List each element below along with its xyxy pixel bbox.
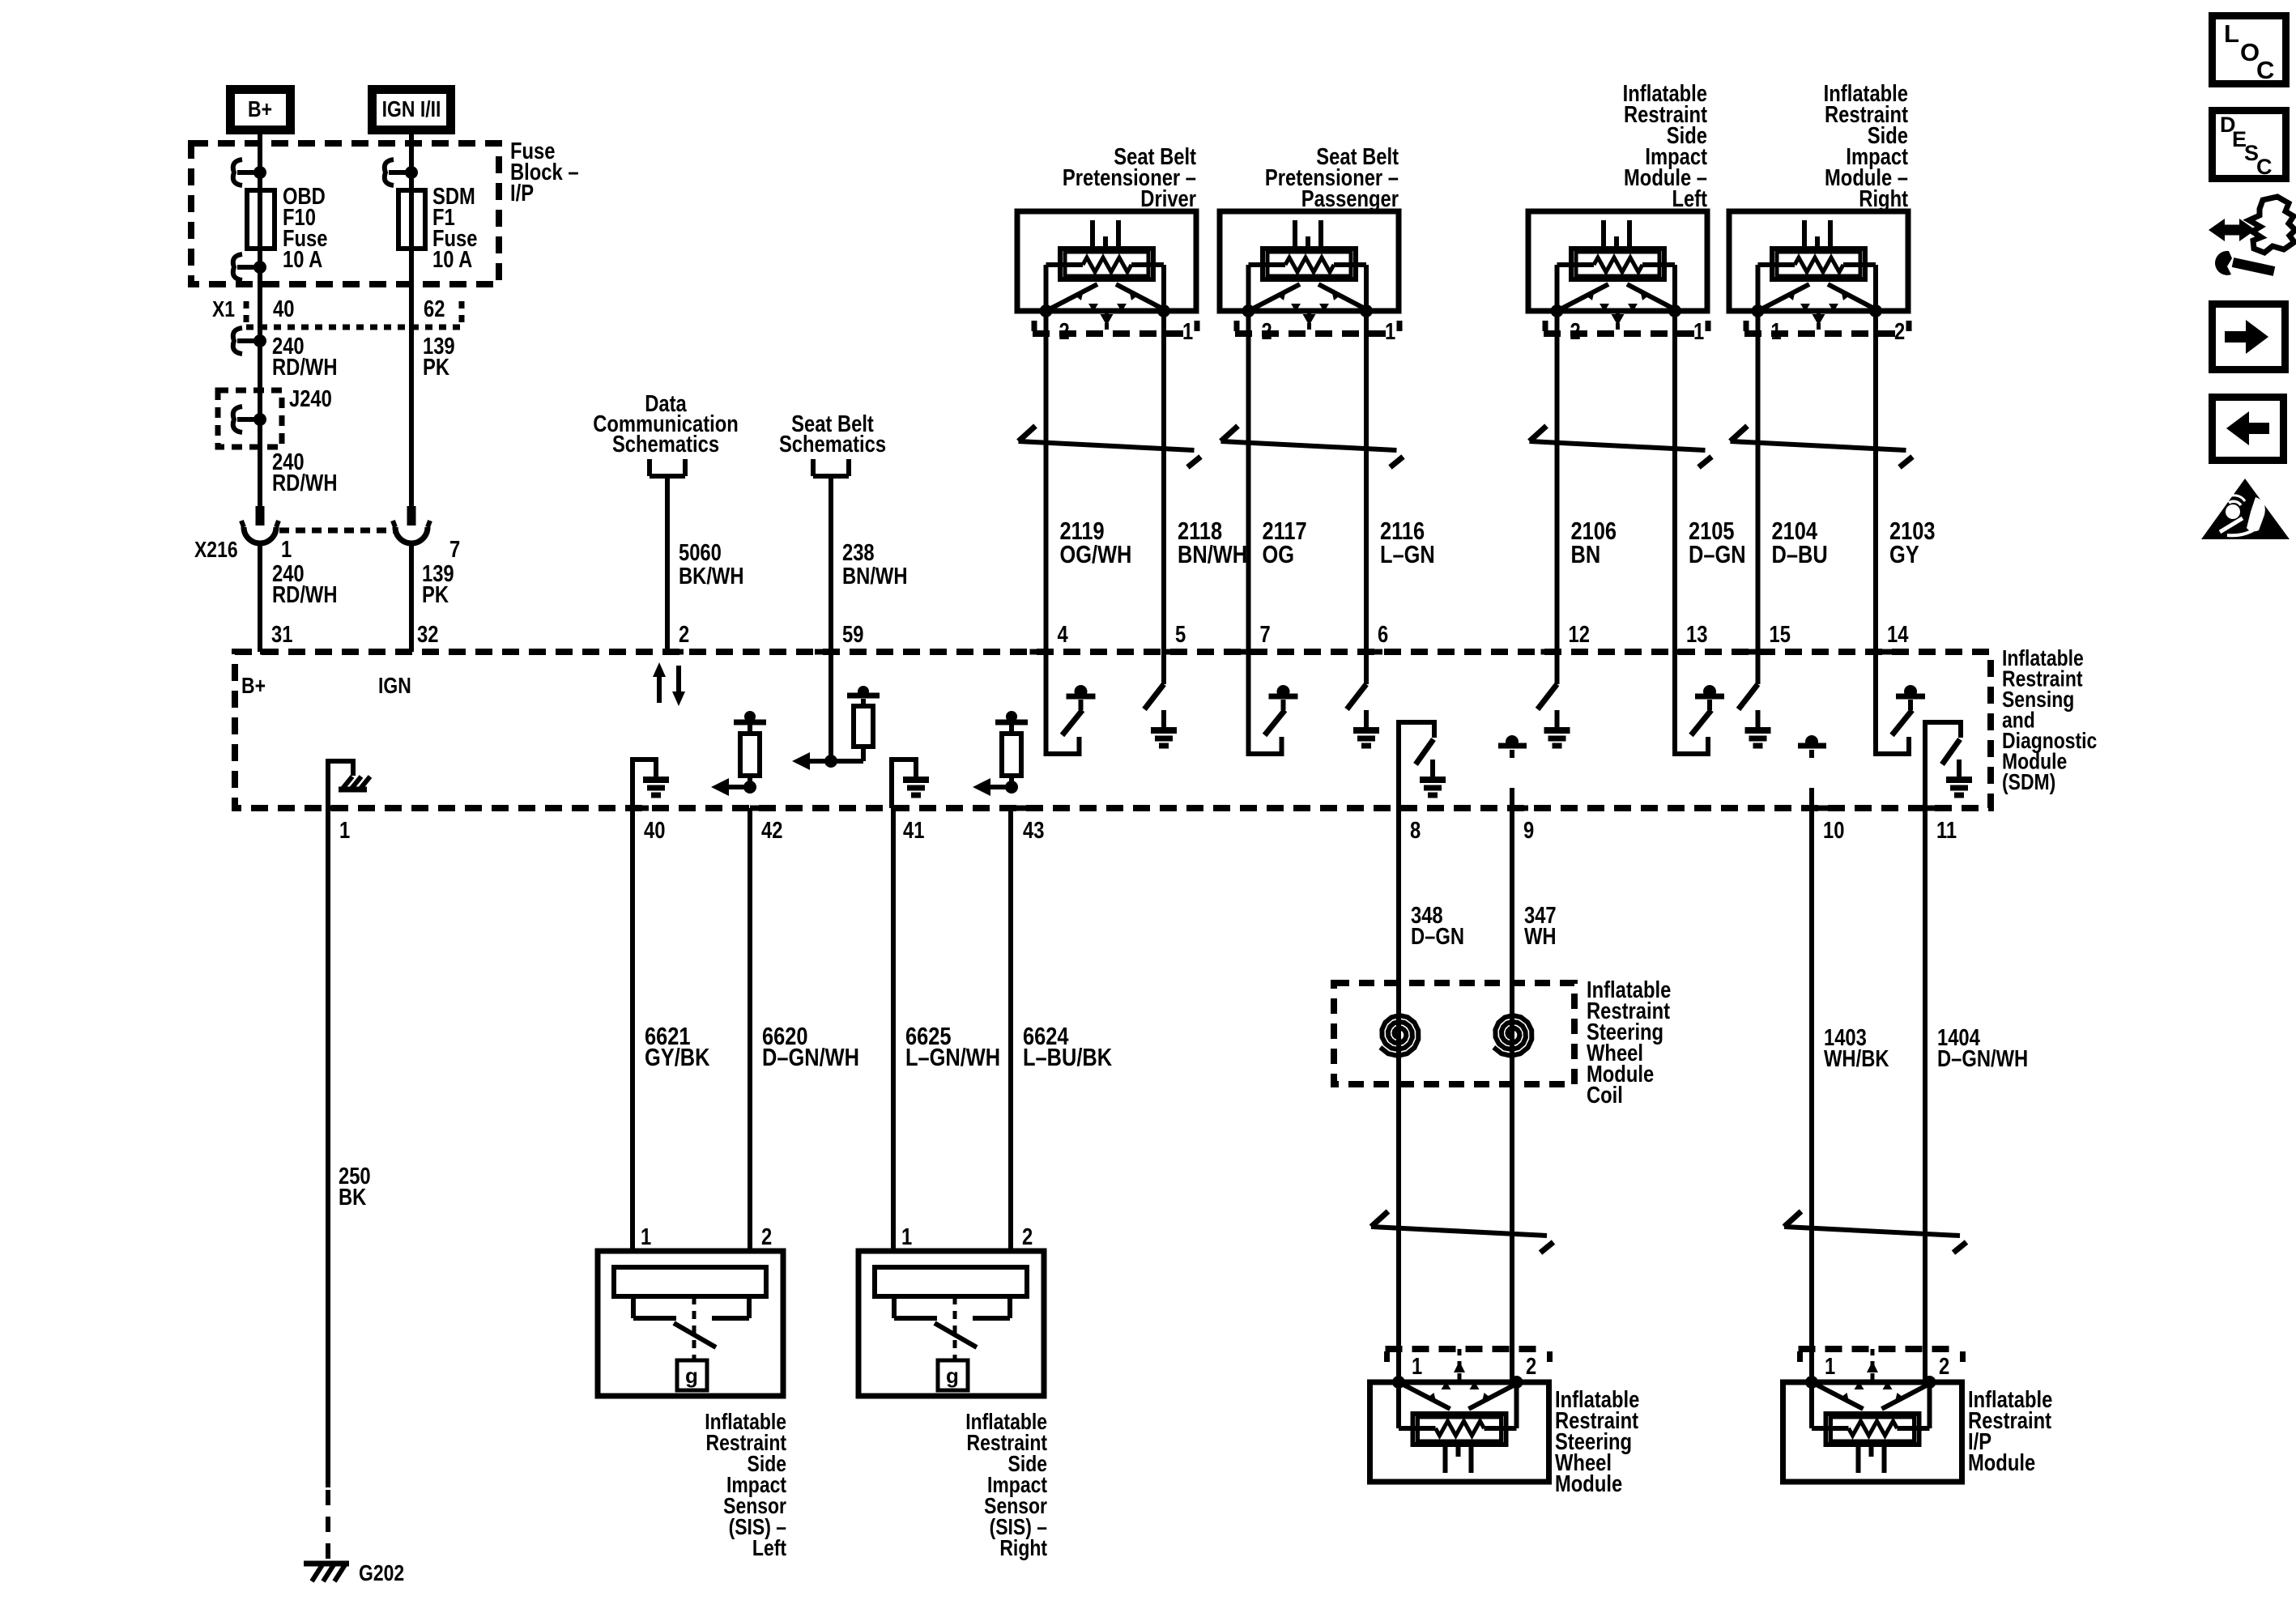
svg-text:L–GN/WH: L–GN/WH	[905, 1044, 1000, 1072]
svg-text:5: 5	[1175, 621, 1186, 648]
SDM deploy switch pin 4	[1046, 652, 1096, 754]
svg-text:1: 1	[1412, 1353, 1422, 1380]
connector cup X216 pin 7	[393, 506, 430, 543]
fuse block I/P dashed box	[191, 143, 499, 284]
svg-text:1: 1	[641, 1223, 651, 1250]
coil spiral right	[1493, 1015, 1531, 1056]
icon back arrow box	[2213, 398, 2284, 461]
svg-text:10 A: 10 A	[283, 246, 322, 273]
svg-text:Schematics: Schematics	[612, 431, 719, 457]
SDM serial data arrows	[657, 675, 662, 703]
break on wires 2106/2105	[1530, 426, 1712, 467]
wire 2106 BN	[1555, 311, 1560, 652]
svg-text:D–BU: D–BU	[1772, 541, 1828, 569]
svg-text:2: 2	[1570, 318, 1581, 345]
svg-text:I/P: I/P	[510, 180, 534, 206]
svg-text:G202: G202	[359, 1561, 404, 1586]
svg-text:RD/WH: RD/WH	[272, 470, 338, 496]
svg-text:15: 15	[1770, 621, 1791, 648]
squib component Seat Belt Pretensioner – Passenger	[1220, 211, 1399, 317]
svg-text:1: 1	[339, 817, 350, 844]
SDM return switch pin 12	[1538, 652, 1557, 709]
svg-text:40: 40	[644, 817, 665, 844]
ground	[1745, 710, 1771, 746]
inline connector IP module	[1799, 1349, 1963, 1382]
wire 250 BK	[326, 808, 330, 1487]
svg-text:C: C	[2256, 56, 2274, 84]
svg-text:Left: Left	[1672, 185, 1707, 212]
svg-text:B+: B+	[248, 97, 272, 122]
svg-text:L–BU/BK: L–BU/BK	[1023, 1044, 1113, 1072]
ground	[1151, 710, 1177, 746]
ground	[1946, 760, 1972, 795]
ground	[1353, 710, 1379, 746]
svg-text:D–GN/WH: D–GN/WH	[1937, 1045, 2028, 1072]
svg-text:Schematics: Schematics	[779, 431, 886, 457]
svg-text:(SDM): (SDM)	[2002, 770, 2055, 795]
wire 238 BN/WH	[829, 476, 833, 652]
svg-text:RD/WH: RD/WH	[272, 581, 338, 608]
module SDM dashed outline	[235, 652, 1991, 808]
SDM return switch pin 6	[1347, 652, 1366, 709]
svg-text:X216: X216	[194, 538, 238, 563]
svg-text:5060: 5060	[679, 539, 722, 566]
reference bracket	[650, 459, 685, 476]
svg-text:PK: PK	[423, 354, 449, 381]
wire 1403 WH/BK	[1809, 808, 1814, 1382]
svg-text:IGN I/II: IGN I/II	[382, 97, 441, 122]
wire 348 D-GN	[1396, 808, 1401, 1382]
ground SDM pin 40	[643, 760, 669, 795]
SDM return switch pin 5	[1144, 652, 1164, 709]
svg-text:g: g	[685, 1364, 698, 1388]
wire 6621 GY/BK	[630, 808, 635, 1251]
svg-text:2: 2	[1526, 1353, 1536, 1380]
svg-text:IGN: IGN	[378, 674, 411, 699]
fuse SDM F1 10A	[398, 190, 425, 249]
fuse OBD F10 10A	[247, 190, 275, 249]
wire 6624 L–BU/BK	[1008, 808, 1013, 1251]
wire 240 RD/WH to SDM	[258, 543, 262, 652]
wire 2105 D–GN	[1672, 311, 1677, 652]
SDM switch pin 9	[1494, 785, 1512, 808]
inline connector steering wheel module	[1386, 1349, 1550, 1382]
svg-text:C: C	[2256, 155, 2273, 179]
svg-text:1: 1	[1693, 318, 1704, 345]
pin feet SDM top edge	[260, 649, 276, 655]
wire 2103 GY	[1873, 311, 1878, 652]
icon forward arrow box	[2213, 304, 2285, 370]
wire 2118 BN/WH	[1161, 311, 1166, 652]
wire B+ feed	[258, 134, 262, 506]
connector cup X216 pin 1	[241, 506, 279, 543]
SDM pin 42 shorting-bar resistor	[711, 711, 766, 796]
break on wires 2104/2103	[1731, 426, 1913, 467]
wire 6620 D–GN/WH	[748, 808, 752, 1251]
SDM switch pin 11	[1925, 722, 1961, 808]
break on wires 2119/2118	[1019, 426, 1201, 467]
svg-text:10: 10	[1823, 817, 1844, 844]
svg-text:WH: WH	[1524, 923, 1557, 950]
svg-text:OG/WH: OG/WH	[1060, 541, 1132, 569]
SDM deploy switch pin 14	[1876, 652, 1925, 754]
wire 2116 L–GN	[1364, 311, 1369, 652]
svg-text:J240: J240	[289, 385, 332, 412]
svg-text:Left: Left	[752, 1536, 786, 1561]
inline connector Passenger	[1235, 311, 1399, 334]
svg-text:BN/WH: BN/WH	[842, 563, 908, 589]
reference bracket	[813, 459, 849, 476]
splice clip J240	[233, 406, 266, 432]
SDM deploy switch pin 7	[1249, 652, 1298, 754]
svg-text:32: 32	[417, 621, 438, 648]
svg-text:11: 11	[1936, 817, 1957, 844]
power node B+ box	[231, 90, 291, 130]
SDM switch pin 10	[1794, 785, 1812, 808]
svg-text:PK: PK	[422, 581, 449, 608]
clip above fuse F1	[385, 160, 418, 185]
svg-text:D–GN: D–GN	[1411, 923, 1464, 950]
svg-text:12: 12	[1569, 621, 1590, 648]
ground SDM pin 41	[903, 760, 929, 795]
svg-text:42: 42	[761, 817, 782, 844]
svg-text:1: 1	[1771, 318, 1782, 345]
svg-text:2: 2	[1022, 1223, 1033, 1250]
icon DESC box	[2213, 111, 2286, 180]
svg-text:D–GN: D–GN	[1689, 541, 1746, 569]
icon SRS caution triangle	[2201, 479, 2290, 539]
SDM deploy switch pin 13	[1675, 652, 1724, 754]
SDM pin 40 ground bracket	[633, 760, 656, 808]
wire 1404 D-GN/WH	[1923, 808, 1928, 1382]
svg-text:1: 1	[281, 536, 292, 563]
svg-text:2: 2	[1939, 1353, 1949, 1380]
SDM pin 41 ground bracket	[892, 760, 916, 808]
svg-text:g: g	[946, 1364, 959, 1388]
svg-text:BN: BN	[1571, 541, 1601, 569]
svg-text:2: 2	[1059, 318, 1070, 345]
svg-text:2: 2	[1894, 318, 1905, 345]
SDM pin 59 resistor network	[829, 652, 833, 761]
break on wires 2117/2116	[1221, 426, 1404, 467]
inline connector Driver	[1033, 311, 1197, 334]
component Inflatable Restraint Side Impact Sensor (SIS) Left	[598, 1251, 783, 1396]
inline connector Left	[1544, 311, 1708, 334]
svg-text:BK: BK	[339, 1184, 366, 1211]
SDM pin 1 ground bracket	[328, 761, 353, 808]
svg-text:1: 1	[1825, 1353, 1835, 1380]
svg-text:Driver: Driver	[1140, 185, 1196, 212]
inline connector Right	[1744, 311, 1909, 334]
squib component Inflatable Restraint Right	[1729, 211, 1908, 317]
wire 2119 OG/WH	[1044, 311, 1049, 652]
svg-text:GY: GY	[1889, 541, 1919, 569]
svg-text:4: 4	[1058, 621, 1068, 648]
clip below fuse F10	[233, 254, 266, 280]
coil spiral left	[1380, 1015, 1418, 1056]
svg-text:7: 7	[1260, 621, 1271, 648]
wire 6625 L–GN/WH	[891, 808, 896, 1251]
connector X1 row	[244, 301, 249, 322]
svg-text:RD/WH: RD/WH	[272, 354, 338, 381]
svg-text:10 A: 10 A	[432, 246, 472, 273]
SDM switch pin 8	[1399, 722, 1434, 808]
wire IGN feed	[409, 134, 414, 506]
svg-text:59: 59	[842, 621, 863, 648]
ground G202	[304, 1561, 349, 1567]
svg-text:L–GN: L–GN	[1380, 541, 1435, 569]
svg-text:OG: OG	[1263, 541, 1295, 569]
break on wires 1403/1404	[1784, 1211, 1966, 1253]
svg-text:D–GN/WH: D–GN/WH	[762, 1044, 859, 1072]
svg-text:Module: Module	[1968, 1449, 2035, 1476]
squib IP module	[1783, 1376, 1962, 1482]
svg-text:41: 41	[903, 817, 924, 844]
svg-text:43: 43	[1023, 817, 1044, 844]
wire 2104 D–BU	[1756, 311, 1761, 652]
svg-text:WH/BK: WH/BK	[1824, 1045, 1889, 1072]
svg-text:Passenger: Passenger	[1301, 185, 1399, 212]
module steering wheel coil dashed box	[1334, 983, 1574, 1084]
squib component Seat Belt Pretensioner – Driver	[1017, 211, 1196, 317]
svg-text:6: 6	[1378, 621, 1388, 648]
SDM pin 43 shorting-bar resistor	[973, 711, 1028, 796]
wire 139 PK to SDM	[409, 543, 414, 652]
pin feet SDM bottom edge	[328, 806, 344, 811]
splice J240 dashed box	[218, 390, 282, 447]
svg-text:Right: Right	[1859, 185, 1908, 212]
svg-text:L: L	[2224, 19, 2239, 48]
svg-text:14: 14	[1887, 621, 1909, 648]
component Inflatable Restraint Side Impact Sensor (SIS) Right	[858, 1251, 1044, 1396]
ground	[1544, 710, 1570, 746]
svg-text:Module: Module	[1555, 1470, 1622, 1497]
svg-text:Coil: Coil	[1587, 1082, 1623, 1108]
wire dashed to G202	[326, 1490, 330, 1560]
icon LOC box	[2213, 16, 2286, 85]
svg-text:BK/WH: BK/WH	[679, 563, 744, 589]
svg-text:X1: X1	[212, 297, 235, 322]
svg-text:1: 1	[1385, 318, 1395, 345]
svg-text:GY/BK: GY/BK	[645, 1044, 710, 1072]
svg-text:1: 1	[901, 1223, 912, 1250]
SDM return switch pin 15	[1739, 652, 1758, 709]
svg-text:BN/WH: BN/WH	[1178, 541, 1247, 569]
svg-text:2: 2	[761, 1223, 772, 1250]
squib steering wheel module	[1370, 1376, 1549, 1482]
squib component Inflatable Restraint Left	[1528, 211, 1707, 317]
svg-text:7: 7	[449, 536, 460, 563]
power node IGN I/II box	[373, 90, 451, 130]
svg-text:2: 2	[1262, 318, 1272, 345]
svg-text:2: 2	[679, 621, 689, 648]
svg-text:B+: B+	[241, 674, 266, 699]
chassis ground SDM pin 1	[339, 777, 370, 789]
wire 5060 BK/WH	[665, 476, 670, 652]
svg-text:Right: Right	[999, 1536, 1047, 1561]
svg-text:238: 238	[842, 539, 875, 566]
icon service manual hand with arrow and wrench	[2209, 197, 2295, 275]
svg-text:1: 1	[1182, 318, 1193, 345]
svg-text:40: 40	[273, 296, 294, 322]
clip terminal below X1	[233, 328, 266, 354]
svg-text:9: 9	[1523, 817, 1534, 844]
svg-text:13: 13	[1686, 621, 1707, 648]
svg-text:8: 8	[1410, 817, 1421, 844]
svg-text:62: 62	[424, 296, 445, 322]
wire 347 WH	[1510, 808, 1514, 1382]
wire 2117 OG	[1246, 311, 1251, 652]
clip above fuse F10	[233, 160, 266, 185]
ground	[1420, 760, 1446, 795]
break on wires 348/347	[1371, 1211, 1553, 1253]
svg-text:31: 31	[271, 621, 292, 648]
